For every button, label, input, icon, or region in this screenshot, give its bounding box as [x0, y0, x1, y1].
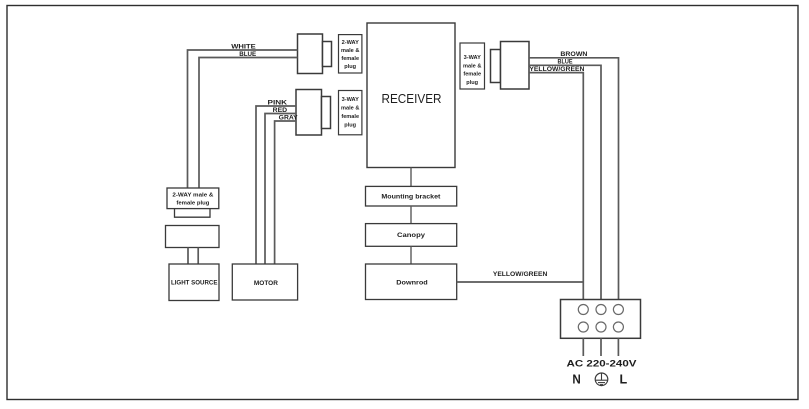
- svg-text:plug: plug: [344, 123, 356, 129]
- svg-text:male &: male &: [463, 63, 481, 69]
- label box: 3-WAY male & female plug (right): [460, 43, 485, 89]
- svg-text:Canopy: Canopy: [397, 232, 425, 239]
- svg-text:2-WAY male &: 2-WAY male &: [172, 193, 213, 199]
- wire L below terminal block: [617, 338, 619, 356]
- protective earth symbol: [595, 373, 608, 386]
- svg-text:Downrod: Downrod: [396, 280, 428, 287]
- light source: [169, 264, 219, 301]
- terminal block TB1: [561, 300, 641, 339]
- svg-text:male &: male &: [341, 48, 359, 54]
- wire mounting bracket to canopy: [410, 206, 412, 224]
- 3-way plug connector P3: [491, 42, 530, 90]
- light driver box: [166, 226, 220, 248]
- svg-text:BLUE: BLUE: [239, 51, 257, 58]
- wire PINK: [256, 106, 296, 264]
- downrod: [366, 264, 457, 300]
- svg-text:plug: plug: [466, 80, 478, 86]
- svg-text:RED: RED: [273, 107, 288, 114]
- 2-way male & female plug (light source branch): [167, 188, 219, 217]
- svg-text:male &: male &: [341, 106, 359, 112]
- svg-text:L: L: [620, 372, 628, 386]
- label box: 3-WAY male & female plug (left): [339, 91, 362, 135]
- mounting bracket: [366, 186, 457, 206]
- receiver U1: [367, 23, 455, 168]
- svg-text:3-WAY: 3-WAY: [342, 97, 359, 103]
- wire receiver to mounting bracket: [410, 168, 412, 187]
- svg-text:plug: plug: [344, 64, 356, 70]
- svg-text:N: N: [572, 371, 580, 386]
- svg-text:RECEIVER: RECEIVER: [382, 92, 442, 106]
- svg-text:female: female: [463, 72, 481, 78]
- svg-text:female: female: [341, 56, 359, 62]
- svg-text:LIGHT SOURCE: LIGHT SOURCE: [171, 280, 218, 287]
- wire YELLOW/GREEN (right): [529, 73, 583, 300]
- svg-text:BROWN: BROWN: [560, 51, 587, 58]
- svg-text:3-WAY: 3-WAY: [464, 55, 481, 61]
- wire WHITE: [188, 50, 298, 188]
- wire RED: [265, 114, 296, 265]
- 3-way plug connector P2: [296, 90, 331, 136]
- svg-text:MOTOR: MOTOR: [254, 280, 278, 287]
- svg-text:PINK: PINK: [268, 99, 288, 106]
- svg-text:female: female: [341, 114, 359, 120]
- wire earth below terminal block: [600, 338, 602, 356]
- svg-text:YELLOW/GREEN: YELLOW/GREEN: [529, 66, 584, 73]
- svg-text:female plug: female plug: [176, 200, 209, 206]
- wire driver to light source (left): [187, 248, 189, 265]
- svg-text:AC 220-240V: AC 220-240V: [567, 359, 637, 369]
- wire BLUE (left): [199, 58, 298, 189]
- canopy: [366, 224, 457, 247]
- wire N below terminal block: [582, 338, 584, 356]
- wire BROWN: [529, 58, 619, 300]
- wire YELLOW/GREEN (downrod to terminal block): [457, 281, 584, 283]
- label box: 2-WAY male & female plug: [339, 35, 362, 73]
- wire GRAY: [275, 121, 296, 264]
- svg-text:GRAY: GRAY: [279, 114, 299, 121]
- wire driver to light source (right): [197, 248, 199, 265]
- svg-text:2-WAY: 2-WAY: [342, 40, 359, 46]
- 2-way plug connector P1: [298, 34, 332, 74]
- svg-text:WHITE: WHITE: [231, 43, 256, 50]
- wire BLUE (right): [529, 65, 601, 299]
- svg-text:Mounting bracket: Mounting bracket: [381, 194, 441, 201]
- wire canopy to downrod: [410, 246, 412, 264]
- motor: [232, 264, 297, 300]
- svg-text:BLUE: BLUE: [558, 59, 574, 66]
- svg-text:YELLOW/GREEN: YELLOW/GREEN: [493, 271, 548, 278]
